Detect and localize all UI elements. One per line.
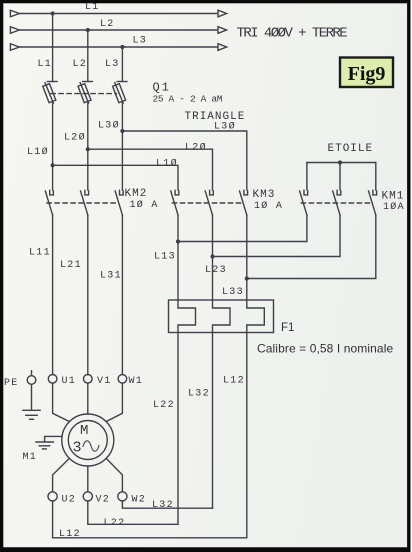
terminal W1 — [118, 375, 127, 384]
svg-text:L12: L12 — [59, 529, 81, 540]
wire L23 link — [213, 215, 341, 257]
svg-text:1ØA: 1ØA — [383, 201, 405, 213]
svg-text:L22: L22 — [153, 400, 175, 411]
contactor KM1 pole 1 — [300, 190, 308, 215]
node L10 tap — [51, 163, 55, 167]
svg-text:KM2: KM2 — [125, 188, 148, 200]
contactor KM1 pole 3 — [369, 190, 377, 215]
svg-text:L12: L12 — [223, 376, 245, 387]
F1 heater pole 2 — [213, 300, 231, 333]
fuse-switch Q1 pole 1 — [43, 82, 57, 104]
svg-text:L21: L21 — [60, 260, 82, 271]
svg-text:L1Ø: L1Ø — [27, 146, 49, 158]
svg-text:L22: L22 — [104, 518, 126, 529]
svg-text:L1: L1 — [85, 2, 100, 13]
wire L30 branch — [122, 131, 246, 190]
svg-text:W2: W2 — [132, 495, 147, 506]
node L33 — [245, 276, 249, 280]
svg-text:L3Ø: L3Ø — [98, 120, 120, 132]
phase line L1 — [20, 13, 218, 15]
ground motor — [36, 442, 53, 449]
node L2 tap — [86, 28, 90, 32]
svg-text:L23: L23 — [205, 265, 227, 276]
svg-text:1Ø A: 1Ø A — [130, 199, 159, 211]
wire U1 to motor — [53, 383, 70, 422]
node L30 tap — [120, 129, 124, 133]
svg-text:V1: V1 — [97, 376, 112, 387]
thermal overload F1 body — [169, 300, 274, 333]
svg-text:L33: L33 — [222, 287, 244, 298]
contactor KM3 pole 2 — [205, 190, 213, 215]
star bus KM1 — [307, 162, 376, 164]
svg-text:W1: W1 — [129, 376, 144, 387]
figure label box Fig9 — [340, 58, 393, 88]
svg-text:L2Ø: L2Ø — [64, 132, 86, 144]
svg-text:L2: L2 — [100, 19, 115, 30]
terminal V1 — [84, 375, 93, 384]
ground PE — [23, 410, 40, 419]
svg-text:L13: L13 — [154, 252, 176, 263]
wire KM3 pole1 to F1 — [177, 215, 179, 300]
svg-text:U2: U2 — [62, 495, 77, 506]
contactor KM2 pole 1 — [45, 190, 53, 215]
wire V1 to motor — [87, 383, 89, 414]
contactor KM3 pole 1 — [171, 190, 179, 215]
node L3 tap — [120, 45, 124, 49]
L3 end arrow — [218, 44, 227, 51]
wire motor to U2 — [53, 458, 70, 491]
node star bus — [338, 160, 342, 164]
svg-text:1Ø A: 1Ø A — [254, 200, 283, 212]
contactor KM1 pole 2 — [333, 190, 341, 215]
terminal U1 — [48, 375, 57, 384]
L1 source arrow — [10, 10, 19, 17]
wire L10 branch — [53, 165, 178, 190]
contactor KM2 pole 3 — [115, 190, 123, 215]
wire L31 — [121, 215, 123, 375]
wire W2 to L32 — [122, 501, 212, 508]
wire L21 — [87, 215, 89, 375]
svg-text:ETOILE: ETOILE — [328, 143, 374, 155]
fuse-switch Q1 pole 2 — [78, 82, 92, 104]
svg-text:KM3: KM3 — [253, 189, 276, 201]
svg-text:PE: PE — [4, 378, 19, 389]
node L13 — [176, 239, 180, 243]
wire L11 — [52, 215, 54, 375]
wire motor to W2 — [106, 458, 122, 491]
svg-text:L1: L1 — [38, 59, 53, 70]
svg-text:L1Ø: L1Ø — [156, 158, 178, 170]
KM2 linkage — [47, 202, 117, 204]
wire L33 link — [247, 215, 376, 279]
L2 source arrow — [10, 27, 19, 34]
wire motor to V2 — [87, 466, 89, 492]
phase line L2 — [20, 29, 218, 31]
svg-text:L2: L2 — [73, 59, 88, 70]
wire L12 — [246, 333, 248, 538]
contactor KM2 pole 2 — [81, 190, 89, 215]
wire L1 drop — [52, 14, 54, 82]
wire L13 link — [178, 215, 307, 242]
svg-text:L31: L31 — [100, 271, 122, 282]
wire L3 drop — [121, 47, 123, 82]
svg-text:L2Ø: L2Ø — [185, 142, 207, 154]
svg-text:L3: L3 — [105, 59, 120, 70]
svg-text:KM1: KM1 — [382, 191, 405, 203]
node L1 tap — [51, 11, 55, 15]
F1 heater pole 1 — [178, 300, 196, 333]
svg-text:L32: L32 — [152, 500, 174, 511]
terminal U2 — [48, 492, 57, 501]
wire L2 drop — [87, 30, 89, 82]
wire L22 — [177, 333, 179, 525]
svg-text:M1: M1 — [23, 452, 38, 463]
svg-text:25 A - 2 A aM: 25 A - 2 A aM — [153, 94, 223, 105]
wire KM1 pole2 feed — [339, 163, 341, 191]
svg-text:TRI 4ØØV + TERRE: TRI 4ØØV + TERRE — [237, 26, 348, 42]
svg-text:Calibre = 0,58 I nominale: Calibre = 0,58 I nominale — [257, 342, 393, 356]
fuse-switch Q1 pole 3 — [113, 82, 127, 104]
wire Q1 pole2 output — [87, 103, 89, 190]
svg-text:Q1: Q1 — [153, 81, 171, 95]
wire V2 to L22 — [88, 501, 178, 524]
wire U2 to L12 — [53, 501, 247, 538]
svg-text:3: 3 — [73, 440, 82, 457]
phase line L3 — [20, 46, 218, 48]
svg-text:L32: L32 — [188, 389, 210, 400]
svg-text:TRIANGLE: TRIANGLE — [185, 111, 246, 123]
L1 end arrow — [218, 10, 227, 17]
wire KM3 pole3 to F1 — [246, 215, 248, 300]
svg-text:U1: U1 — [62, 376, 77, 387]
svg-text:F1: F1 — [281, 322, 294, 334]
L3 source arrow — [10, 44, 19, 51]
F1 heater pole 3 — [247, 300, 264, 333]
node L23 — [210, 254, 214, 258]
motor M1 — [62, 414, 114, 466]
svg-text:V2: V2 — [96, 495, 111, 506]
terminal V2 — [83, 492, 92, 501]
PE earth wire — [31, 384, 33, 409]
svg-text:L3: L3 — [133, 36, 148, 47]
terminal PE — [27, 376, 36, 385]
svg-text:L11: L11 — [29, 248, 51, 259]
wire W1 to motor — [106, 383, 122, 422]
svg-text:Fig9: Fig9 — [348, 63, 386, 85]
wire KM1 pole1 feed — [306, 163, 308, 191]
PE stub — [31, 371, 33, 376]
KM1 linkage — [301, 202, 370, 204]
svg-text:M: M — [80, 423, 88, 439]
wire Q1 pole3 output — [121, 103, 123, 190]
Q1 linkage — [51, 93, 117, 95]
wire L20 branch — [88, 149, 213, 190]
wire L32 — [212, 333, 214, 509]
node L20 tap — [86, 147, 90, 151]
wire KM1 pole3 feed — [375, 163, 377, 191]
L2 end arrow — [218, 27, 227, 34]
wire Q1 pole1 output — [52, 103, 54, 190]
wire KM3 pole2 to F1 — [212, 215, 214, 300]
KM3 linkage — [172, 202, 242, 204]
terminal W2 — [118, 492, 127, 501]
contactor KM3 pole 3 — [240, 190, 248, 215]
motor earth wire — [45, 436, 63, 441]
